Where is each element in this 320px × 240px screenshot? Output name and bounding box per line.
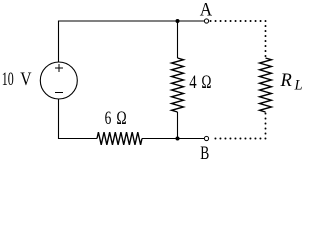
terminal A open circle (204, 19, 208, 23)
junction node at top of 4-ohm branch (176, 19, 180, 23)
voltage source plus sign (55, 64, 63, 72)
wire: top wire junction to terminal A (178, 20, 205, 22)
svg-text:6: 6 (105, 108, 112, 129)
voltage source V1 circle (40, 62, 77, 99)
wire: bottom wire from 6-ohm resistor to junction to terminal B (142, 138, 204, 140)
voltage source minus sign (55, 92, 63, 94)
junction node at bottom of 4-ohm branch (176, 137, 180, 141)
resistor 4-ohm branch bottom lead (177, 112, 179, 139)
svg-text:R: R (280, 71, 292, 91)
terminal B open circle (204, 136, 208, 140)
svg-text:L: L (294, 78, 303, 94)
svg-text:10: 10 (2, 69, 14, 90)
svg-text:Ω: Ω (116, 108, 127, 129)
svg-text:B: B (200, 144, 209, 164)
dotted wire: terminal A to top-right corner (211, 20, 266, 22)
resistor 4-ohm branch top lead (177, 21, 179, 58)
resistor R 6-ohm zigzag (97, 132, 142, 145)
svg-text:Ω: Ω (201, 72, 211, 93)
wire: left vertical below source to bottom-left corner (59, 99, 98, 139)
wire: top wire from source corner to junction (59, 21, 178, 62)
resistor R 4-ohm zigzag (172, 58, 184, 112)
dotted wire: RL bottom down to bottom-right corner (265, 114, 267, 139)
load resistor RL zigzag (260, 58, 272, 112)
dotted wire: top-right corner down to RL (265, 21, 267, 57)
svg-text:A: A (200, 0, 213, 21)
svg-text:V: V (20, 69, 32, 90)
svg-text:4: 4 (189, 72, 197, 93)
dotted wire: bottom-right corner to terminal B (211, 138, 266, 140)
